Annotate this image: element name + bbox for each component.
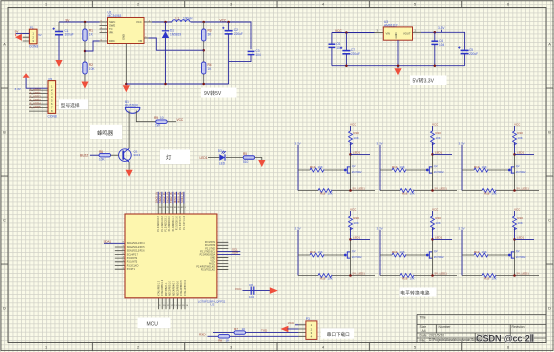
wire R4 to ground rail bbox=[203, 74, 205, 84]
svg-text:Number: Number bbox=[439, 325, 452, 329]
power port 9V (left arrow) bbox=[15, 34, 22, 41]
svg-text:VCC: VCC bbox=[136, 20, 142, 24]
svg-text:P3: P3 bbox=[306, 317, 310, 321]
wire arrow to P2 pin1 bbox=[26, 78, 48, 88]
svg-text:P1.6/XT2/1.5: P1.6/XT2/1.5 bbox=[180, 215, 182, 229]
svg-text:P1.0/ADC0/2.3: P1.0/ADC0/2.3 bbox=[157, 215, 160, 231]
U2 top pin numbers bbox=[159, 207, 187, 209]
level shifter block 4 (Q5) bbox=[295, 207, 376, 280]
svg-text:B: B bbox=[548, 131, 551, 135]
svg-text:FB: FB bbox=[139, 39, 143, 43]
level shifter block 5 (Q6) bbox=[377, 207, 458, 280]
svg-text:RXD2_IN: RXD2_IN bbox=[166, 192, 170, 203]
MCU U2 body bbox=[125, 214, 217, 298]
svg-text:电平转换电路: 电平转换电路 bbox=[400, 290, 430, 297]
wire R1 to R2 bbox=[84, 41, 86, 62]
svg-text:1W: 1W bbox=[155, 124, 160, 128]
svg-text:P2.3/INT1: P2.3/INT1 bbox=[205, 242, 216, 244]
label box 9V to 5V bbox=[201, 88, 237, 98]
U2 top pins bbox=[158, 204, 184, 215]
title block texts bbox=[420, 316, 525, 343]
U1 pin names bbox=[109, 20, 142, 43]
power arrow right (bypass) bbox=[270, 287, 278, 294]
svg-text:D: D bbox=[548, 307, 551, 311]
junction bbox=[345, 31, 348, 34]
svg-text:XTAL2/PB6/0.5: XTAL2/PB6/0.5 bbox=[180, 280, 183, 296]
connector P2 CON8 bbox=[48, 81, 56, 114]
svg-text:1N5819: 1N5819 bbox=[170, 32, 181, 36]
U2 left pin numbers bbox=[123, 242, 125, 270]
Q1 emitter wire bbox=[128, 162, 130, 170]
ground rail bbox=[332, 65, 465, 67]
wire input rail bbox=[59, 21, 100, 23]
svg-text:104: 104 bbox=[249, 295, 254, 299]
wire R9 to VCC bbox=[167, 121, 176, 123]
U1 ground pin bbox=[125, 44, 127, 85]
svg-text:VOUT: VOUT bbox=[403, 32, 411, 36]
svg-text:P3.3/T1: P3.3/T1 bbox=[127, 269, 136, 271]
LED D3 bbox=[219, 154, 225, 160]
svg-text:Date:: Date: bbox=[420, 334, 428, 338]
svg-text:SWE: SWE bbox=[109, 24, 115, 28]
resistor R5 bbox=[243, 156, 255, 160]
svg-text:P3.2/CLKO: P3.2/CLKO bbox=[127, 265, 139, 267]
U3 input pin bbox=[375, 32, 384, 34]
svg-text:P2.2/INT0: P2.2/INT0 bbox=[205, 245, 216, 247]
zone tick marks right bbox=[546, 88, 553, 264]
voltage regulator U3 AMS1117 body bbox=[383, 27, 412, 40]
label box MCU bbox=[138, 318, 171, 329]
svg-text:CON8: CON8 bbox=[48, 115, 57, 119]
svg-text:SDA3/SCL3/P2.6: SDA3/SCL3/P2.6 bbox=[127, 250, 145, 253]
svg-text:D3: D3 bbox=[218, 149, 222, 153]
svg-text:10K: 10K bbox=[89, 67, 96, 71]
svg-text:ADC3/PB3/1.0: ADC3/PB3/1.0 bbox=[169, 280, 172, 296]
wire VCC to P3 pin1 bbox=[295, 324, 299, 326]
power ground arrow below U1 bbox=[125, 83, 128, 86]
svg-text:P1.3/MISO/2.0: P1.3/MISO/2.0 bbox=[169, 215, 171, 231]
U1 right pins bbox=[144, 22, 152, 38]
junction bbox=[84, 50, 87, 53]
zone tick marks top bbox=[92, 1, 461, 8]
wire stub SDA bbox=[217, 253, 240, 255]
wire SDA1 to U2 pin bbox=[104, 242, 125, 244]
svg-text:B: B bbox=[3, 131, 6, 135]
label box buzzer bbox=[90, 125, 122, 139]
svg-text:P1.4/MOSI/1.7: P1.4/MOSI/1.7 bbox=[173, 215, 175, 231]
svg-text:RXD: RXD bbox=[199, 332, 206, 336]
svg-text:P3.1/INT3: P3.1/INT3 bbox=[127, 262, 138, 264]
svg-text:File:: File: bbox=[420, 339, 426, 343]
U2 right pins bbox=[217, 242, 228, 269]
svg-text:GND: GND bbox=[210, 257, 215, 259]
svg-text:SDA1: SDA1 bbox=[104, 240, 112, 244]
svg-text:P2.5/T0CLKO: P2.5/T0CLKO bbox=[201, 269, 216, 271]
wire input to U3 bbox=[332, 32, 375, 34]
connector P2 pins bbox=[29, 90, 48, 111]
svg-text:D: D bbox=[3, 307, 6, 311]
svg-text:3: 3 bbox=[230, 346, 232, 350]
wire R5 to ground bbox=[255, 158, 262, 161]
svg-text:TXD2_IN: TXD2_IN bbox=[169, 192, 173, 203]
capacitor C2 bbox=[228, 22, 230, 31]
ground rail bbox=[126, 83, 228, 85]
svg-text:CSDN @cc 2Ⅱ: CSDN @cc 2Ⅱ bbox=[476, 333, 534, 344]
resistor R9 bbox=[156, 120, 168, 124]
svg-text:ADC4/PB4/0.7: ADC4/PB4/0.7 bbox=[173, 280, 176, 296]
U2 inside left pin names bbox=[127, 242, 145, 271]
U1 left pins bbox=[100, 22, 108, 41]
svg-text:5V: 5V bbox=[38, 33, 42, 37]
svg-text:XTALO/PB1/1.2: XTALO/PB1/1.2 bbox=[161, 279, 164, 296]
power arrow left (P3 pin2) bbox=[280, 326, 288, 333]
resistor R2 bbox=[83, 62, 87, 74]
svg-text:RST/PB2/1.1: RST/PB2/1.1 bbox=[166, 282, 168, 296]
svg-text:100uF: 100uF bbox=[65, 33, 74, 37]
transistor Q1 bbox=[119, 149, 132, 162]
buzzer right lead bbox=[136, 111, 155, 122]
svg-text:VCC: VCC bbox=[210, 260, 215, 262]
resistor R8 bbox=[218, 335, 230, 339]
svg-text:BUZZER: BUZZER bbox=[125, 104, 138, 108]
wire FB to divider bbox=[149, 38, 204, 50]
inductor L1 bbox=[172, 20, 190, 22]
svg-text:P2.1/TXD/SCL: P2.1/TXD/SCL bbox=[200, 251, 216, 253]
wire U3 output bbox=[421, 32, 465, 50]
wire arrow to P3 pin2 bbox=[287, 328, 298, 330]
svg-text:4: 4 bbox=[322, 3, 324, 7]
svg-text:灯: 灯 bbox=[166, 154, 172, 162]
svg-text:A: A bbox=[3, 43, 6, 47]
svg-text:220uF: 220uF bbox=[469, 52, 478, 56]
level shifter block 6 (Q7) bbox=[459, 207, 540, 280]
svg-text:P1.5/SCK/1.6: P1.5/SCK/1.6 bbox=[176, 215, 178, 230]
svg-text:3.3V: 3.3V bbox=[15, 87, 22, 91]
svg-text:R8: R8 bbox=[218, 338, 222, 342]
capacitor C3 bbox=[248, 51, 255, 54]
connector P1 pins bbox=[23, 33, 30, 41]
svg-text:C: C bbox=[548, 219, 551, 223]
wire U1 SW output bbox=[152, 21, 172, 23]
power ground arrow below Q1 bbox=[126, 170, 133, 177]
svg-text:C8: C8 bbox=[249, 283, 253, 287]
svg-text:GND: GND bbox=[394, 32, 398, 38]
svg-text:6: 6 bbox=[507, 346, 509, 350]
level shifter block 2 (Q3) bbox=[377, 122, 458, 195]
power ground arrow after R5 bbox=[258, 160, 265, 167]
svg-text:VCC: VCC bbox=[235, 287, 242, 291]
svg-text:SCL2_IN: SCL2_IN bbox=[162, 192, 166, 203]
junction bbox=[227, 21, 230, 24]
svg-text:SDA1/SCL1/P2.4: SDA1/SCL1/P2.4 bbox=[127, 242, 145, 245]
svg-text:AVCC: AVCC bbox=[209, 262, 216, 265]
svg-text:P2.1/TXD: P2.1/TXD bbox=[205, 248, 215, 250]
power ground arrow below U3 bbox=[394, 68, 401, 75]
zone numbers top bbox=[45, 3, 509, 7]
svg-text:C: C bbox=[3, 219, 6, 223]
svg-text:5: 5 bbox=[414, 346, 416, 350]
svg-text:BUZZ: BUZZ bbox=[80, 153, 88, 157]
svg-text:串口下载口: 串口下载口 bbox=[327, 331, 350, 338]
connector P3 bbox=[306, 321, 317, 340]
U2 top pin wires bbox=[158, 192, 184, 204]
svg-text:10K: 10K bbox=[99, 158, 106, 162]
svg-text:5V转3.3V: 5V转3.3V bbox=[413, 78, 435, 85]
svg-text:MCU: MCU bbox=[147, 322, 159, 328]
U1 pin numbers bbox=[101, 21, 151, 42]
svg-text:9V转5V: 9V转5V bbox=[204, 90, 222, 97]
capacitor C5 bbox=[458, 46, 469, 53]
wire bypass bbox=[243, 290, 271, 292]
svg-text:VCC: VCC bbox=[220, 18, 227, 22]
connector P1 CON3 bbox=[29, 29, 37, 44]
svg-text:LED1: LED1 bbox=[200, 156, 208, 160]
U2 bottom pin numbers bbox=[159, 305, 189, 307]
svg-text:A: A bbox=[548, 43, 551, 47]
svg-text:R9: R9 bbox=[154, 116, 158, 120]
wire BUZZ to R6 bbox=[90, 154, 99, 156]
wire R6 to Q1 base bbox=[111, 154, 119, 156]
junction bbox=[202, 49, 205, 52]
svg-text:TC: TC bbox=[109, 27, 113, 31]
wire R8 to P3 pin4 bbox=[230, 335, 299, 337]
wire R3 to R4 bbox=[203, 41, 205, 62]
svg-text:SDA2/SCL2/P2.5: SDA2/SCL2/P2.5 bbox=[127, 246, 145, 249]
svg-text:SDA: SDA bbox=[232, 251, 238, 255]
U2 inside bottom pin names bbox=[157, 279, 187, 296]
label box serial port bbox=[321, 328, 354, 338]
svg-text:U2: U2 bbox=[211, 303, 215, 307]
resistor R1 bbox=[84, 22, 86, 29]
level shifter block 3 (Q4) bbox=[459, 122, 540, 195]
svg-text:型号选择: 型号选择 bbox=[61, 102, 80, 109]
svg-text:DAC0_IN: DAC0_IN bbox=[155, 192, 159, 203]
resistor R6 bbox=[99, 153, 111, 157]
wire junction to U1 pin bbox=[85, 41, 100, 51]
svg-text:104: 104 bbox=[439, 43, 445, 47]
svg-text:DRC: DRC bbox=[109, 39, 115, 43]
svg-text:1: 1 bbox=[45, 345, 47, 349]
svg-text:GND: GND bbox=[122, 34, 126, 40]
U3 ground pin wire bbox=[397, 40, 399, 68]
svg-text:MISO_IN: MISO_IN bbox=[173, 192, 177, 203]
power ground arrow below C1 bbox=[55, 60, 62, 67]
svg-text:AMS1117: AMS1117 bbox=[384, 23, 398, 27]
svg-text:CON3: CON3 bbox=[29, 44, 38, 48]
resistor R4 bbox=[202, 62, 206, 74]
svg-text:MC34063: MC34063 bbox=[108, 14, 122, 18]
zone letters right bbox=[548, 43, 551, 311]
svg-text:VIN: VIN bbox=[386, 32, 391, 36]
wire arrow to P1 bbox=[16, 32, 30, 34]
label box level shift circuit bbox=[400, 288, 437, 297]
U3 pin names bbox=[386, 32, 411, 39]
level shifter block 1 (Q2) bbox=[295, 122, 376, 195]
svg-text:P2.0/RXD/SDA: P2.0/RXD/SDA bbox=[200, 253, 216, 256]
op-amp U1 MC34063 body bbox=[108, 18, 145, 44]
title block frame bbox=[417, 315, 546, 343]
svg-text:220uF: 220uF bbox=[234, 32, 243, 36]
svg-text:XTAL1/PB7/0.4: XTAL1/PB7/0.4 bbox=[184, 280, 187, 296]
svg-text:9013: 9013 bbox=[134, 153, 141, 157]
svg-text:R6: R6 bbox=[99, 150, 103, 154]
svg-text:SCL4/P2.7: SCL4/P2.7 bbox=[127, 254, 139, 256]
svg-text:P2: P2 bbox=[49, 77, 53, 81]
resistor R3 bbox=[203, 22, 205, 29]
svg-text:IPK: IPK bbox=[109, 31, 114, 35]
buzzer B1 bbox=[125, 106, 140, 108]
zone numbers bottom bbox=[45, 345, 509, 349]
svg-text:LED: LED bbox=[219, 162, 226, 166]
svg-text:P1.2/ADC2/2.1: P1.2/ADC2/2.1 bbox=[164, 215, 167, 231]
power port 3.3V bbox=[441, 30, 443, 33]
svg-text:Title: Title bbox=[420, 316, 426, 320]
zone tick marks left bbox=[1, 88, 8, 264]
capacitor C7 bbox=[345, 33, 347, 51]
svg-text:ADC5/PB5/0.6: ADC5/PB5/0.6 bbox=[176, 280, 179, 296]
power port 3.3V (up arrow) bbox=[23, 73, 30, 78]
svg-text:XTALI/PB0/1.3: XTALI/PB0/1.3 bbox=[157, 280, 160, 296]
svg-text:VCC: VCC bbox=[288, 321, 295, 325]
zone letters left bbox=[3, 43, 6, 311]
svg-text:Revision: Revision bbox=[512, 325, 525, 329]
junction bbox=[164, 21, 167, 24]
svg-text:104: 104 bbox=[255, 53, 261, 57]
wire LED1 to D3 bbox=[208, 157, 219, 159]
U2 bottom pins bbox=[158, 298, 185, 309]
svg-text:VCC: VCC bbox=[177, 118, 184, 122]
wire R2 to ground bbox=[84, 74, 86, 82]
wire TXD line bbox=[213, 332, 234, 334]
svg-text:P1: P1 bbox=[30, 26, 34, 30]
svg-text:100uH: 100uH bbox=[183, 16, 193, 20]
capacitor C6 bbox=[331, 33, 333, 45]
svg-text:蜂鸣器: 蜂鸣器 bbox=[97, 129, 114, 137]
svg-text:2: 2 bbox=[137, 346, 139, 350]
U2 top pin net labels bbox=[155, 192, 185, 203]
svg-text:P1.7/XT1/1.4: P1.7/XT1/1.4 bbox=[184, 215, 186, 229]
U2 inside right pin names bbox=[196, 242, 215, 271]
capacitor C1 bbox=[58, 22, 60, 31]
junction bbox=[84, 21, 87, 24]
zone tick marks bottom bbox=[92, 343, 461, 351]
svg-text:5: 5 bbox=[414, 3, 416, 7]
label box LED bbox=[160, 150, 190, 165]
svg-text:P1.1/ADC1/2.2: P1.1/ADC1/2.2 bbox=[161, 215, 164, 231]
svg-text:220uF: 220uF bbox=[351, 52, 360, 56]
U2 left pins bbox=[115, 247, 125, 269]
net label rows on P2 bbox=[30, 87, 42, 109]
U3 output pin bbox=[413, 31, 422, 33]
label box 5V to 3.3V bbox=[410, 76, 447, 86]
svg-text:10: 10 bbox=[160, 116, 164, 120]
capacitor C8 across wire bbox=[251, 287, 254, 295]
wire R7 to P3 pin3 bbox=[246, 332, 299, 334]
svg-text:L1: L1 bbox=[176, 16, 180, 20]
svg-text:TXD: TXD bbox=[261, 329, 268, 333]
svg-text:A4: A4 bbox=[422, 329, 426, 333]
svg-text:6: 6 bbox=[507, 3, 509, 7]
svg-text:P2.4/RST/MCLKO: P2.4/RST/MCLKO bbox=[196, 266, 215, 268]
svg-text:SWC: SWC bbox=[109, 20, 115, 24]
svg-text:3: 3 bbox=[230, 3, 232, 7]
power ground arrow below R2 bbox=[81, 82, 88, 89]
wire RXD to R8 bbox=[208, 335, 219, 337]
svg-text:R5: R5 bbox=[243, 152, 247, 156]
svg-text:MOSI_IN: MOSI_IN bbox=[177, 192, 181, 203]
wire stub SCL bbox=[217, 250, 240, 252]
svg-text:4: 4 bbox=[322, 346, 324, 350]
resistor R7 bbox=[234, 331, 246, 335]
capacitor C4 bbox=[434, 32, 436, 41]
svg-text:S_ADD5: S_ADD5 bbox=[30, 105, 42, 109]
U2 inside top pin names bbox=[157, 215, 186, 231]
svg-text:SDA2_IN: SDA2_IN bbox=[158, 192, 162, 203]
wire D3 to R5 bbox=[226, 157, 243, 159]
buzzer left lead to Q1 collector bbox=[128, 111, 130, 149]
svg-text:R7: R7 bbox=[234, 327, 238, 331]
connector P3 pins bbox=[299, 325, 306, 337]
svg-text:1: 1 bbox=[45, 3, 47, 7]
svg-text:2: 2 bbox=[137, 3, 139, 7]
svg-text:510: 510 bbox=[243, 160, 249, 164]
svg-text:P3.0/INT2: P3.0/INT2 bbox=[127, 258, 138, 260]
svg-text:SCK1_IN: SCK1_IN bbox=[180, 192, 184, 203]
wire L1 to VCC node bbox=[191, 22, 252, 49]
svg-text:D:\Projects\dianzizhong\main.S: D:\Projects\dianzizhong\main.SchDoc bbox=[429, 338, 483, 342]
junction bbox=[434, 31, 437, 34]
label box model select bbox=[59, 99, 88, 109]
diode D1 1N5819 bbox=[165, 22, 167, 31]
svg-text:3.3V: 3.3V bbox=[438, 26, 445, 30]
